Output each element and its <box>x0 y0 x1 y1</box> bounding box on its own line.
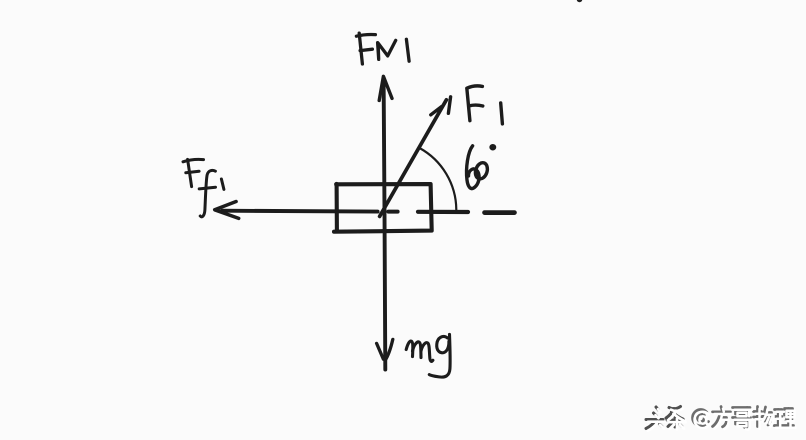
angle arc 60deg <box>420 148 457 210</box>
top edge mark <box>577 0 582 2</box>
force F1 arrow <box>380 97 451 217</box>
label FN1 <box>356 33 409 64</box>
force FN1 arrow <box>379 76 392 211</box>
block (rectangle) <box>334 184 432 232</box>
label 60deg <box>467 145 496 189</box>
watermark 头条@方哥物理 <box>646 407 796 431</box>
label mg <box>406 334 450 377</box>
force mg arrow <box>377 211 393 370</box>
label F1 <box>467 86 503 124</box>
force Ff1 arrow <box>215 202 378 219</box>
dashed surface line <box>388 212 514 213</box>
label Ff1 <box>183 159 224 216</box>
